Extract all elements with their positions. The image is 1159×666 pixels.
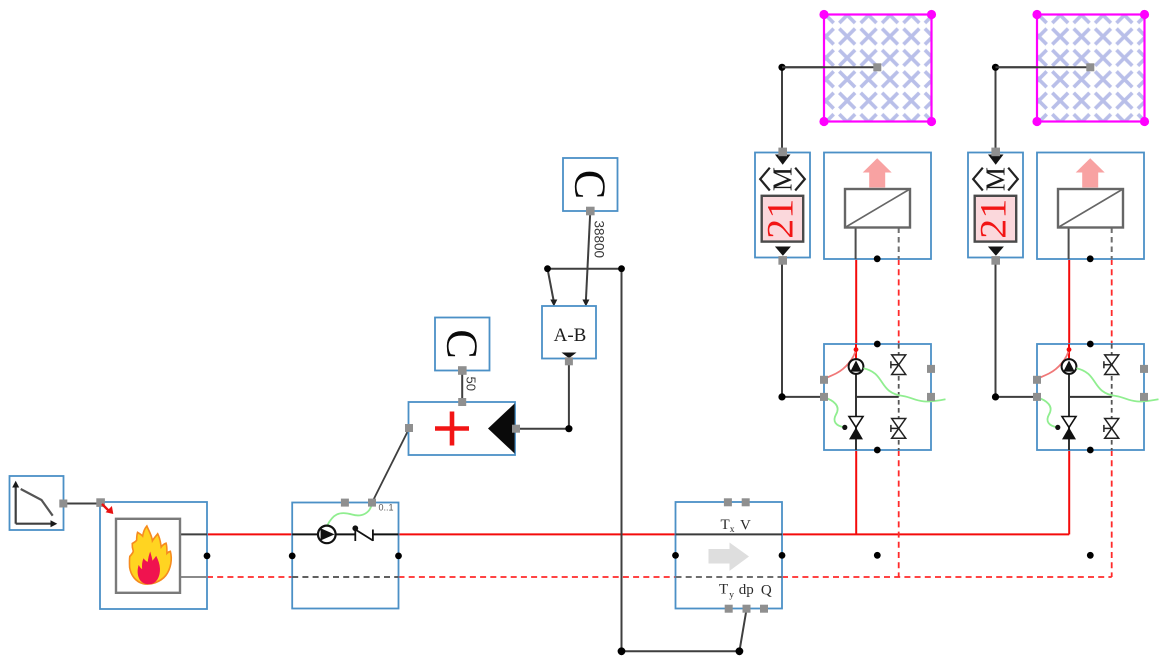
- svg-text:dp: dp: [739, 582, 754, 598]
- svg-text:A-B: A-B: [554, 325, 587, 346]
- svg-text:V: V: [740, 518, 751, 534]
- svg-text:38800: 38800: [592, 221, 607, 259]
- svg-text:Q: Q: [761, 583, 772, 599]
- svg-text:50: 50: [464, 377, 479, 391]
- svg-text:0..1: 0..1: [379, 503, 394, 513]
- svg-text:T: T: [719, 582, 728, 598]
- svg-text:y: y: [729, 591, 734, 601]
- svg-text:x: x: [730, 525, 735, 535]
- svg-text:T: T: [721, 517, 730, 533]
